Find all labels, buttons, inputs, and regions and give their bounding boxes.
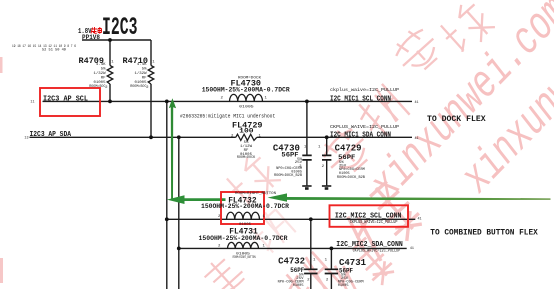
svg-text:I2C_MIC1_SDA_CONN: I2C_MIC1_SDA_CONN bbox=[330, 131, 391, 139]
svg-text:RF: RF bbox=[101, 77, 106, 81]
svg-text:52 51 50 49: 52 51 50 49 bbox=[42, 48, 67, 52]
svg-text:150OHM-25%-200MA-0.7DCR: 150OHM-25%-200MA-0.7DCR bbox=[202, 87, 290, 94]
svg-text:I2C_MIC2_SDA_CONN: I2C_MIC2_SDA_CONN bbox=[336, 241, 403, 249]
svg-text:TO DOCK FLEX: TO DOCK FLEX bbox=[427, 114, 487, 124]
svg-text:I2C_MIC2_SCL_CONN: I2C_MIC2_SCL_CONN bbox=[335, 212, 402, 220]
svg-text:11: 11 bbox=[30, 100, 34, 104]
svg-text:ROOM=DOCK: ROOM=DOCK bbox=[237, 156, 256, 160]
svg-text:PP1V8: PP1V8 bbox=[82, 34, 100, 42]
svg-text:RF: RF bbox=[142, 77, 147, 81]
svg-text:150OHM-25%-200MA-0.7DCR: 150OHM-25%-200MA-0.7DCR bbox=[199, 235, 288, 242]
svg-text:56PF: 56PF bbox=[338, 154, 355, 161]
svg-text:01005: 01005 bbox=[239, 106, 254, 110]
svg-text:CKPLUS_WAIVE=I2C_PULLUP: CKPLUS_WAIVE=I2C_PULLUP bbox=[353, 249, 401, 253]
svg-text:ROOM=SOC: ROOM=SOC bbox=[130, 85, 146, 89]
svg-text:41: 41 bbox=[410, 247, 414, 251]
svg-text:CKPLUS_WAIVE=I2C_PULLUP: CKPLUS_WAIVE=I2C_PULLUP bbox=[330, 124, 399, 130]
svg-text:ROOM=DOCK_B2B: ROOM=DOCK_B2B bbox=[337, 176, 366, 180]
svg-text:C4729: C4729 bbox=[335, 143, 362, 153]
svg-text:#26633265:mitigate MIC1 unders: #26633265:mitigate MIC1 undershoot bbox=[180, 114, 275, 120]
svg-text:41: 41 bbox=[415, 137, 419, 141]
svg-text:5%: 5% bbox=[101, 68, 106, 72]
svg-text:13: 13 bbox=[24, 136, 28, 140]
svg-text:ckplus_waive=I2C_PULLUP: ckplus_waive=I2C_PULLUP bbox=[330, 87, 399, 93]
svg-text:ROOM=DOCK_B2B: ROOM=DOCK_B2B bbox=[274, 174, 303, 178]
svg-text:TO COMBINED BUTTON FLEX: TO COMBINED BUTTON FLEX bbox=[430, 229, 538, 238]
svg-text:C4732: C4732 bbox=[278, 257, 305, 267]
svg-text:I2C3_AP_SCL: I2C3_AP_SCL bbox=[43, 95, 88, 103]
svg-text:4.4K: 4.4K bbox=[96, 63, 106, 67]
svg-text:ROOM=SOC: ROOM=SOC bbox=[89, 85, 105, 89]
svg-text:CKPLUS_WAIVE=I2C_PULLUP: CKPLUS_WAIVE=I2C_PULLUP bbox=[350, 221, 398, 225]
svg-text:100: 100 bbox=[239, 128, 254, 135]
svg-text:I2C3: I2C3 bbox=[102, 13, 138, 42]
svg-text:I2C3_AP_SDA: I2C3_AP_SDA bbox=[30, 131, 72, 139]
svg-text:ROOM=RIGHT_BUTTON: ROOM=RIGHT_BUTTON bbox=[233, 256, 256, 260]
svg-text:1/32W: 1/32W bbox=[134, 71, 147, 76]
svg-text:150OHM-25%-200MA-0.7DCR: 150OHM-25%-200MA-0.7DCR bbox=[201, 203, 289, 210]
svg-text:5%: 5% bbox=[142, 68, 147, 72]
svg-text:I2C_MIC1_SCL_CONN: I2C_MIC1_SCL_CONN bbox=[330, 95, 391, 103]
svg-text:56PF: 56PF bbox=[281, 151, 298, 158]
svg-text:41: 41 bbox=[418, 218, 422, 222]
svg-text:01005: 01005 bbox=[293, 284, 304, 288]
svg-text:41: 41 bbox=[415, 101, 419, 105]
svg-text:4.4K: 4.4K bbox=[137, 63, 147, 67]
svg-text:1/32W: 1/32W bbox=[93, 71, 106, 76]
svg-text:01005: 01005 bbox=[338, 284, 349, 288]
